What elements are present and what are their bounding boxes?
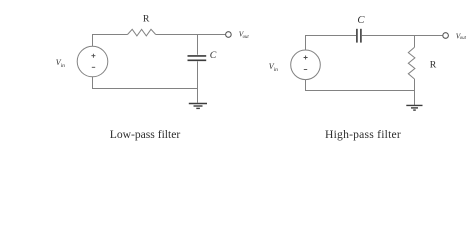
svg-text:R: R	[143, 14, 150, 25]
svg-text:R: R	[430, 60, 437, 71]
svg-text:out: out	[460, 36, 467, 41]
svg-text:Low-pass filter: Low-pass filter	[110, 128, 181, 141]
svg-text:C: C	[210, 50, 217, 61]
svg-text:High-pass filter: High-pass filter	[325, 128, 401, 141]
svg-text:C: C	[357, 15, 365, 26]
svg-text:in: in	[61, 63, 66, 69]
svg-text:out: out	[243, 35, 250, 40]
svg-text:in: in	[274, 67, 279, 73]
